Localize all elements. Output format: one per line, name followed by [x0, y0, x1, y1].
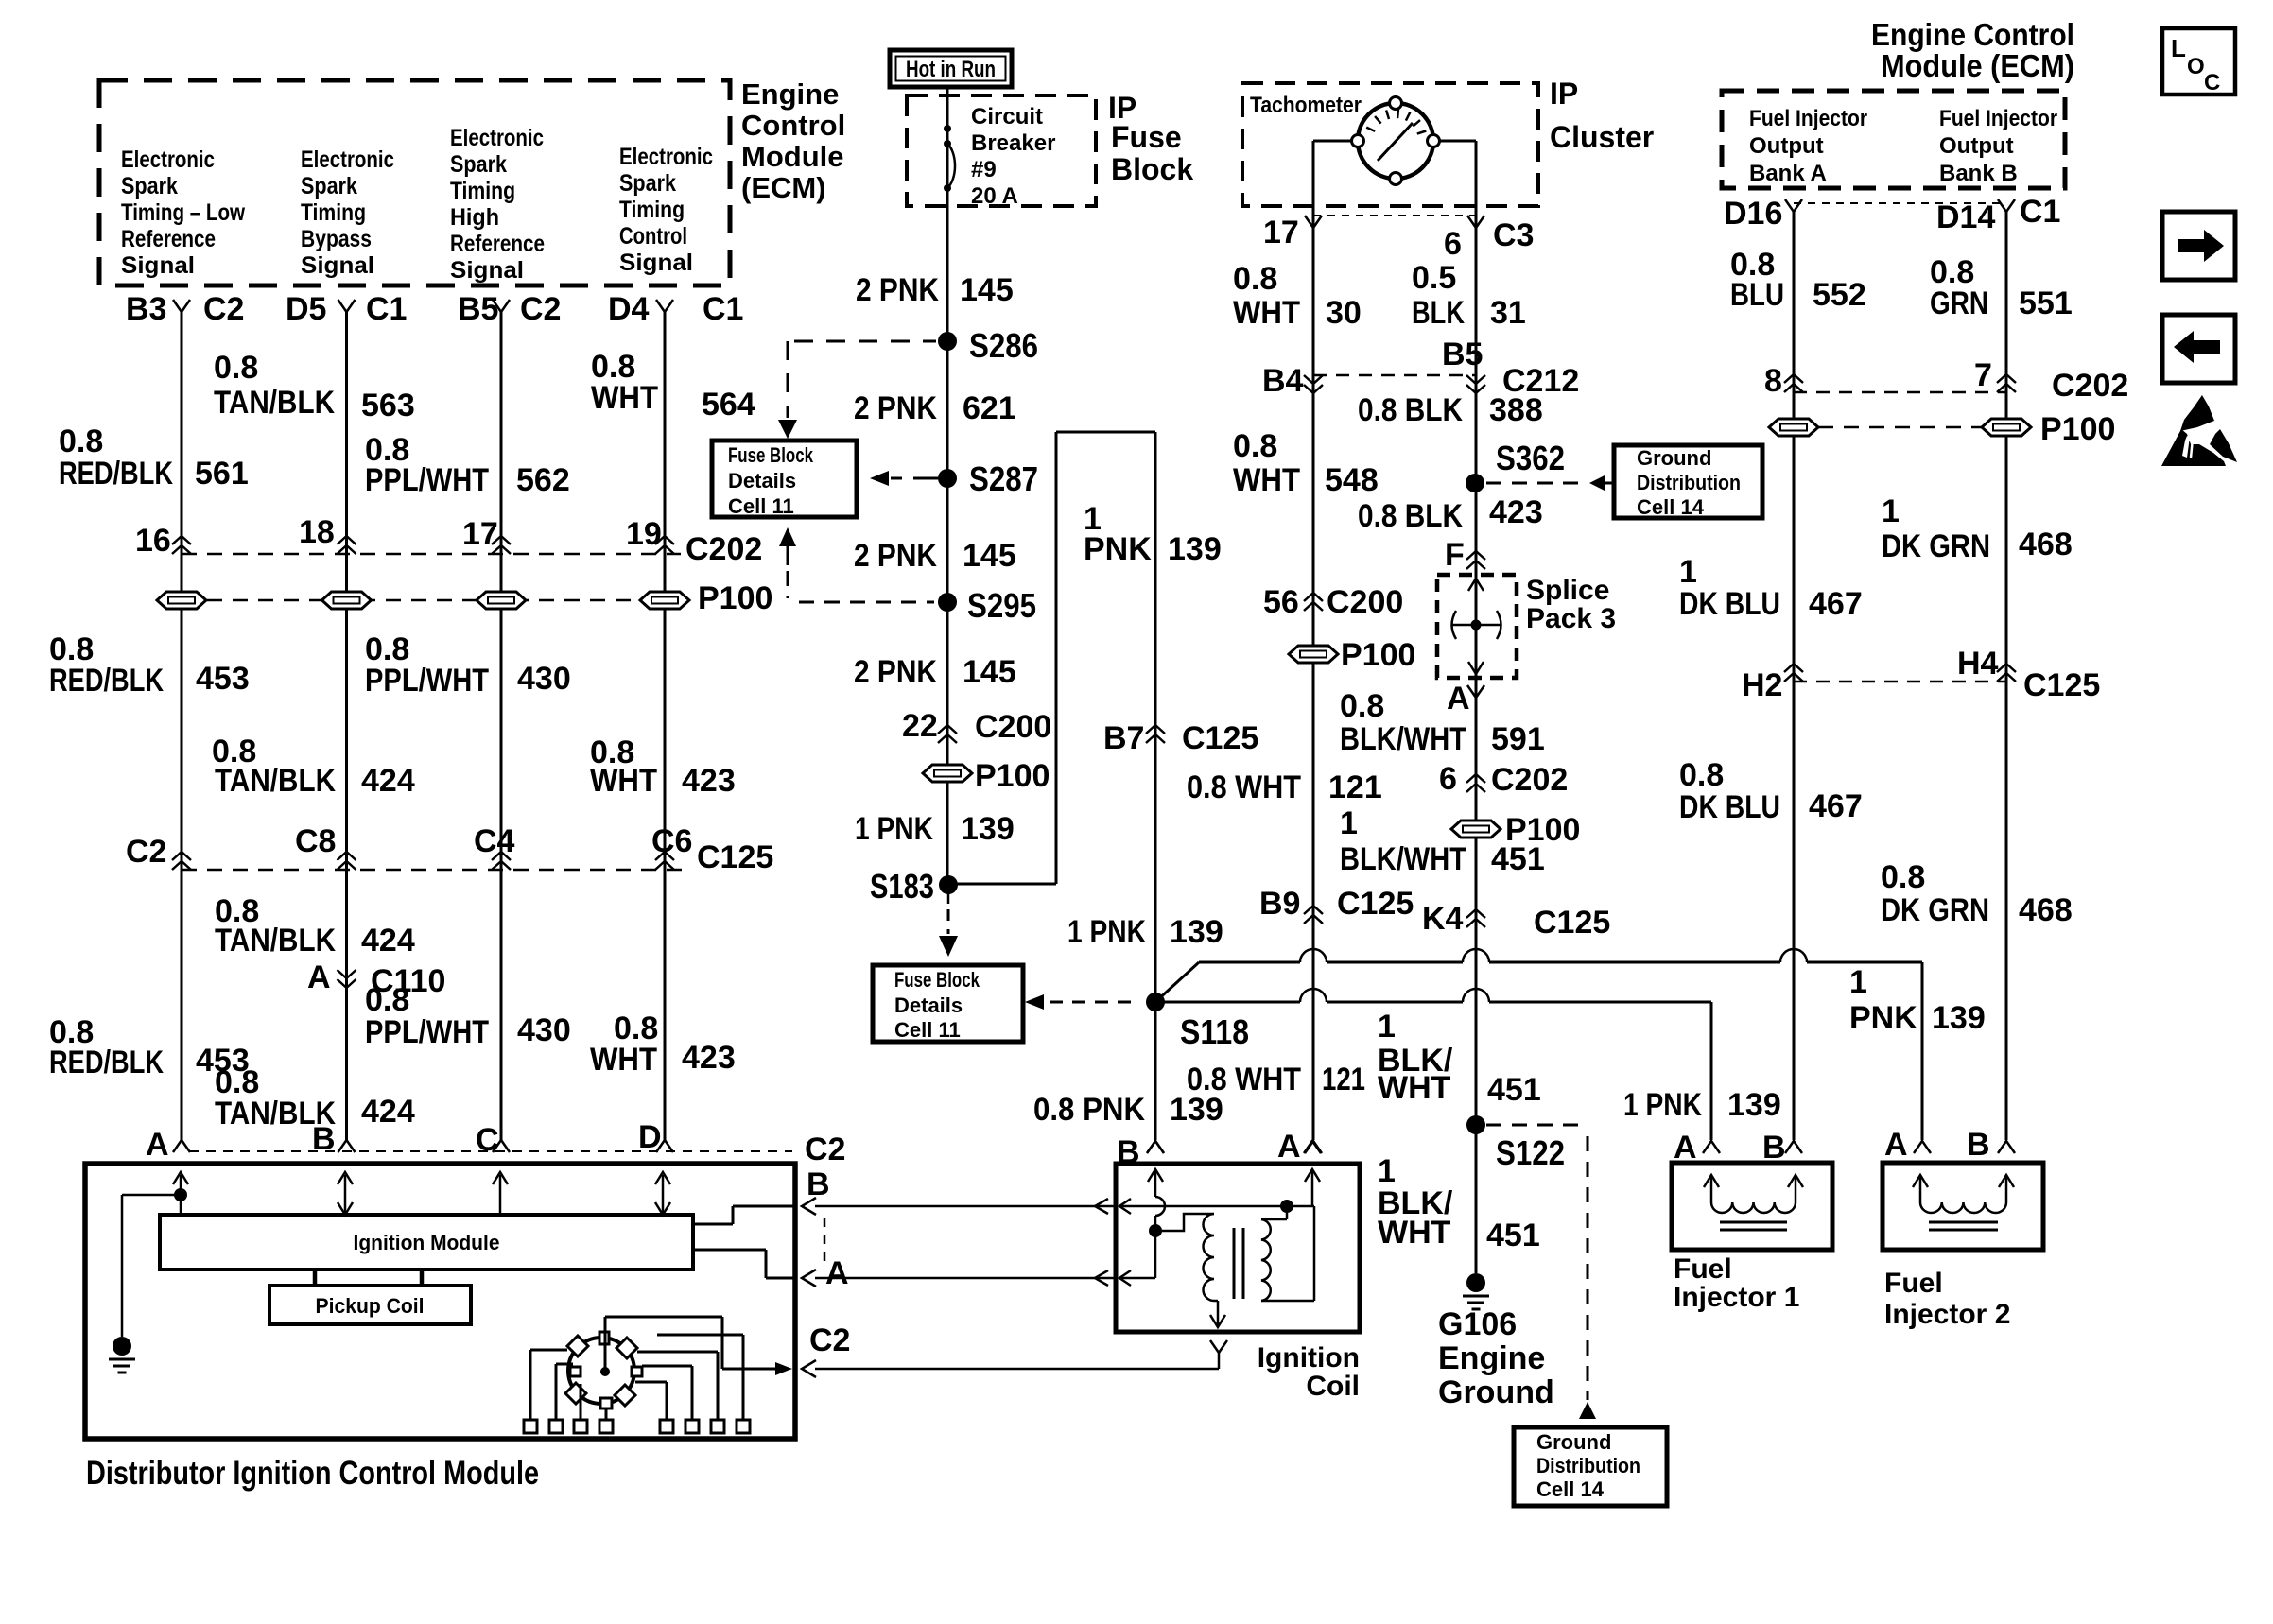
svg-text:430: 430: [517, 1012, 571, 1048]
svg-text:16: 16: [135, 523, 171, 559]
svg-text:B: B: [1117, 1134, 1140, 1170]
svg-text:1: 1: [1378, 1153, 1396, 1189]
svg-text:Fuse: Fuse: [1111, 120, 1182, 154]
svg-text:Bank B: Bank B: [1939, 161, 2018, 186]
svg-text:C125: C125: [1337, 886, 1414, 922]
svg-text:Ground: Ground: [1438, 1374, 1554, 1410]
svg-text:Control: Control: [741, 109, 845, 142]
svg-text:145: 145: [963, 654, 1016, 690]
svg-text:1: 1: [1882, 493, 1900, 529]
svg-text:B: B: [312, 1121, 336, 1157]
svg-text:0.8: 0.8: [214, 350, 258, 386]
svg-text:D4: D4: [608, 291, 650, 327]
svg-text:WHT: WHT: [1378, 1215, 1451, 1251]
svg-text:552: 552: [1813, 277, 1866, 313]
svg-text:551: 551: [2019, 285, 2073, 321]
svg-text:121: 121: [1328, 769, 1382, 805]
svg-text:DK GRN: DK GRN: [1881, 892, 1989, 928]
svg-text:139: 139: [1727, 1087, 1781, 1123]
svg-text:DK BLU: DK BLU: [1679, 789, 1780, 825]
svg-text:424: 424: [361, 763, 415, 799]
svg-text:C200: C200: [1327, 584, 1403, 620]
svg-text:6: 6: [1444, 226, 1462, 262]
svg-text:Coil: Coil: [1306, 1371, 1360, 1402]
svg-text:1: 1: [1849, 964, 1867, 1000]
svg-text:C125: C125: [1534, 905, 1610, 941]
svg-text:145: 145: [963, 538, 1016, 574]
svg-text:C: C: [2204, 70, 2220, 95]
svg-text:S183: S183: [870, 867, 934, 906]
svg-text:G106: G106: [1438, 1306, 1517, 1342]
svg-text:WHT: WHT: [1378, 1070, 1451, 1106]
svg-text:1: 1: [1378, 1009, 1396, 1045]
svg-text:Cell 14: Cell 14: [1536, 1477, 1605, 1501]
svg-text:0.8 WHT: 0.8 WHT: [1187, 769, 1301, 805]
svg-text:1: 1: [1340, 805, 1358, 841]
svg-text:Cell 14: Cell 14: [1637, 495, 1705, 519]
svg-text:453: 453: [196, 661, 250, 697]
svg-text:B3: B3: [126, 291, 166, 327]
svg-text:Electronic: Electronic: [619, 144, 713, 170]
svg-text:WHT: WHT: [590, 1042, 657, 1078]
svg-text:D14: D14: [1936, 199, 1995, 235]
svg-text:Spark: Spark: [301, 173, 357, 199]
svg-text:BLK/WHT: BLK/WHT: [1340, 721, 1466, 757]
svg-text:BLU: BLU: [1730, 277, 1784, 313]
svg-text:TAN/BLK: TAN/BLK: [215, 923, 336, 959]
svg-text:0.8 BLK: 0.8 BLK: [1358, 392, 1463, 428]
svg-text:139: 139: [961, 811, 1015, 847]
svg-text:19: 19: [626, 516, 662, 552]
svg-text:0.8: 0.8: [1679, 757, 1724, 793]
svg-text:Details: Details: [728, 469, 796, 492]
svg-text:DK GRN: DK GRN: [1882, 528, 1990, 564]
svg-text:B5: B5: [458, 291, 498, 327]
svg-text:Injector 2: Injector 2: [1884, 1299, 2010, 1330]
svg-text:BLK/WHT: BLK/WHT: [1340, 841, 1466, 877]
svg-text:423: 423: [1489, 494, 1543, 530]
svg-text:P100: P100: [698, 580, 772, 616]
svg-text:Ignition Module: Ignition Module: [354, 1231, 500, 1254]
svg-text:Tachometer: Tachometer: [1250, 93, 1362, 118]
svg-text:Breaker: Breaker: [971, 130, 1055, 156]
svg-text:Timing: Timing: [619, 197, 685, 223]
svg-text:Signal: Signal: [619, 250, 693, 276]
svg-text:Engine Control: Engine Control: [1871, 17, 2074, 52]
svg-text:56: 56: [1263, 584, 1299, 620]
svg-text:S118: S118: [1180, 1012, 1249, 1051]
svg-text:31: 31: [1490, 295, 1526, 331]
svg-text:Ground: Ground: [1637, 446, 1711, 470]
svg-text:30: 30: [1326, 295, 1362, 331]
svg-text:Fuel: Fuel: [1674, 1253, 1732, 1285]
svg-text:388: 388: [1489, 392, 1543, 428]
svg-text:PPL/WHT: PPL/WHT: [365, 1014, 489, 1050]
svg-text:Module (ECM): Module (ECM): [1881, 48, 2074, 83]
svg-text:C202: C202: [2052, 368, 2128, 404]
svg-text:DK BLU: DK BLU: [1679, 586, 1780, 622]
svg-text:#9: #9: [971, 157, 997, 182]
svg-text:Block: Block: [1111, 152, 1193, 186]
svg-text:C2: C2: [126, 834, 166, 870]
svg-text:Fuel Injector: Fuel Injector: [1749, 106, 1867, 131]
svg-text:O: O: [2187, 54, 2205, 79]
svg-text:467: 467: [1809, 788, 1863, 824]
svg-text:563: 563: [361, 388, 415, 423]
svg-text:C200: C200: [975, 709, 1051, 745]
svg-text:Reference: Reference: [121, 226, 216, 252]
svg-text:PNK: PNK: [1084, 531, 1152, 567]
svg-text:WHT: WHT: [591, 380, 658, 416]
svg-text:Ignition: Ignition: [1258, 1342, 1360, 1373]
svg-text:C4: C4: [474, 823, 515, 859]
svg-text:Signal: Signal: [450, 257, 524, 284]
svg-text:145: 145: [960, 272, 1014, 308]
svg-text:7: 7: [1974, 357, 1992, 393]
svg-text:451: 451: [1491, 841, 1545, 877]
svg-text:Fuel: Fuel: [1884, 1268, 1943, 1299]
svg-text:C1: C1: [2020, 194, 2060, 230]
svg-text:Timing – Low: Timing – Low: [121, 199, 245, 226]
svg-text:1 PNK: 1 PNK: [855, 811, 933, 847]
svg-text:C: C: [476, 1122, 499, 1158]
svg-text:Timing: Timing: [301, 199, 366, 226]
svg-text:468: 468: [2019, 527, 2073, 562]
svg-text:Bank A: Bank A: [1749, 161, 1827, 186]
svg-text:C125: C125: [2023, 667, 2100, 703]
svg-text:Fuse Block: Fuse Block: [894, 968, 980, 992]
svg-text:A: A: [825, 1255, 849, 1291]
svg-text:2 PNK: 2 PNK: [854, 538, 937, 574]
svg-text:S287: S287: [969, 459, 1038, 498]
svg-text:0.8: 0.8: [59, 423, 103, 459]
svg-text:Electronic: Electronic: [450, 125, 544, 151]
svg-text:2 PNK: 2 PNK: [856, 272, 939, 308]
svg-text:20 A: 20 A: [971, 183, 1018, 209]
svg-text:B: B: [807, 1166, 830, 1202]
svg-text:A: A: [146, 1127, 169, 1163]
svg-text:C2: C2: [809, 1322, 850, 1358]
svg-text:RED/BLK: RED/BLK: [59, 456, 173, 492]
svg-text:B5: B5: [1442, 337, 1483, 372]
svg-text:H2: H2: [1742, 667, 1782, 703]
svg-text:A: A: [1884, 1127, 1908, 1163]
svg-text:8: 8: [1764, 363, 1782, 399]
svg-text:Cell 11: Cell 11: [894, 1018, 961, 1042]
svg-text:BLK: BLK: [1412, 295, 1465, 331]
svg-text:PPL/WHT: PPL/WHT: [365, 462, 489, 498]
svg-text:S122: S122: [1496, 1133, 1565, 1172]
svg-text:Electronic: Electronic: [301, 147, 394, 173]
svg-text:Timing: Timing: [450, 178, 515, 204]
svg-text:K4: K4: [1422, 901, 1464, 937]
svg-text:451: 451: [1487, 1072, 1541, 1108]
svg-text:WHT: WHT: [590, 763, 657, 799]
svg-text:P100: P100: [1341, 637, 1415, 673]
svg-text:22: 22: [902, 708, 938, 744]
svg-text:0.8: 0.8: [365, 982, 409, 1018]
svg-text:IP: IP: [1550, 77, 1578, 111]
svg-text:B: B: [1762, 1130, 1786, 1166]
svg-text:WHT: WHT: [1233, 295, 1300, 331]
svg-text:C1: C1: [366, 291, 407, 327]
svg-text:B4: B4: [1262, 363, 1304, 399]
svg-text:1: 1: [1679, 554, 1697, 590]
svg-text:1 PNK: 1 PNK: [1623, 1087, 1702, 1123]
svg-text:Distributor Ignition Control M: Distributor Ignition Control Module: [86, 1455, 539, 1492]
svg-text:467: 467: [1809, 586, 1863, 622]
svg-text:0.8 WHT: 0.8 WHT: [1187, 1062, 1301, 1097]
svg-text:C2: C2: [203, 291, 244, 327]
svg-text:Pack 3: Pack 3: [1526, 603, 1616, 634]
svg-text:Pickup Coil: Pickup Coil: [316, 1294, 425, 1318]
svg-text:Ground: Ground: [1536, 1430, 1611, 1454]
svg-text:139: 139: [1168, 531, 1222, 567]
svg-text:423: 423: [682, 1040, 736, 1076]
svg-text:139: 139: [1170, 914, 1223, 950]
svg-text:C202: C202: [1491, 762, 1568, 798]
svg-text:424: 424: [361, 1094, 415, 1130]
svg-text:139: 139: [1932, 1000, 1986, 1036]
svg-text:0.8: 0.8: [1340, 688, 1384, 724]
svg-text:P100: P100: [2040, 411, 2115, 447]
svg-text:H4: H4: [1957, 646, 1999, 682]
svg-text:2 PNK: 2 PNK: [854, 654, 937, 690]
svg-text:Circuit: Circuit: [971, 104, 1043, 130]
svg-text:0.5: 0.5: [1412, 260, 1456, 296]
svg-text:C8: C8: [295, 823, 336, 859]
svg-text:451: 451: [1486, 1218, 1540, 1253]
svg-text:17: 17: [1263, 215, 1299, 251]
svg-text:TAN/BLK: TAN/BLK: [214, 385, 335, 421]
svg-text:Control: Control: [619, 223, 687, 250]
svg-text:WHT: WHT: [1233, 462, 1300, 498]
svg-text:A: A: [1447, 681, 1470, 717]
svg-text:C125: C125: [1182, 720, 1258, 756]
svg-text:C6: C6: [651, 823, 692, 859]
svg-text:423: 423: [682, 763, 736, 799]
svg-text:562: 562: [516, 462, 570, 498]
svg-text:0.8: 0.8: [1881, 859, 1925, 895]
svg-text:D: D: [638, 1119, 662, 1155]
svg-text:Distribution: Distribution: [1637, 471, 1741, 494]
svg-text:621: 621: [963, 390, 1016, 426]
svg-text:Output: Output: [1939, 133, 2014, 159]
svg-text:Module: Module: [741, 140, 844, 173]
svg-text:S295: S295: [967, 586, 1036, 625]
svg-text:A: A: [1277, 1129, 1301, 1165]
svg-text:S286: S286: [969, 326, 1038, 365]
svg-text:0.8: 0.8: [1233, 428, 1277, 464]
svg-text:548: 548: [1325, 462, 1379, 498]
svg-text:121: 121: [1322, 1062, 1365, 1097]
svg-text:0.8 BLK: 0.8 BLK: [1358, 498, 1463, 534]
svg-text:18: 18: [299, 514, 335, 550]
svg-text:Signal: Signal: [301, 252, 374, 279]
svg-text:B: B: [1967, 1127, 1990, 1163]
svg-text:PNK: PNK: [1849, 1000, 1917, 1036]
svg-text:Spark: Spark: [121, 173, 178, 199]
svg-text:Fuse Block: Fuse Block: [728, 443, 814, 467]
svg-text:Injector 1: Injector 1: [1674, 1282, 1799, 1313]
svg-text:D16: D16: [1724, 196, 1782, 232]
svg-text:Engine: Engine: [1438, 1340, 1545, 1376]
svg-text:P100: P100: [975, 758, 1050, 794]
svg-text:Reference: Reference: [450, 231, 545, 257]
svg-text:PPL/WHT: PPL/WHT: [365, 663, 489, 699]
svg-text:Spark: Spark: [619, 170, 676, 197]
svg-text:A: A: [307, 959, 331, 995]
svg-text:Spark: Spark: [450, 151, 507, 178]
svg-text:GRN: GRN: [1930, 285, 1988, 321]
svg-text:561: 561: [195, 456, 249, 492]
svg-text:C3: C3: [1493, 217, 1534, 253]
svg-text:High: High: [450, 204, 499, 231]
svg-text:RED/BLK: RED/BLK: [49, 663, 164, 699]
svg-text:Details: Details: [894, 993, 963, 1017]
svg-text:Cell 11: Cell 11: [728, 494, 794, 518]
svg-text:B7: B7: [1103, 720, 1144, 756]
svg-text:Output: Output: [1749, 133, 1824, 159]
svg-text:Fuel Injector: Fuel Injector: [1939, 106, 2057, 131]
svg-text:0.8: 0.8: [1233, 261, 1277, 297]
svg-text:C202: C202: [685, 531, 762, 567]
svg-text:591: 591: [1491, 721, 1545, 757]
svg-text:Bypass: Bypass: [301, 226, 372, 252]
svg-text:C2: C2: [520, 291, 561, 327]
svg-text:F: F: [1445, 537, 1465, 573]
svg-text:S362: S362: [1496, 439, 1565, 477]
svg-text:0.8 PNK: 0.8 PNK: [1033, 1092, 1145, 1128]
svg-text:Signal: Signal: [121, 252, 195, 279]
svg-text:Hot in Run: Hot in Run: [906, 57, 996, 82]
svg-text:1 PNK: 1 PNK: [1067, 914, 1146, 950]
svg-text:C2: C2: [805, 1132, 845, 1167]
svg-text:468: 468: [2019, 892, 2073, 928]
svg-text:424: 424: [361, 923, 415, 959]
svg-text:Cluster: Cluster: [1550, 120, 1654, 154]
svg-text:L: L: [2171, 34, 2186, 62]
svg-text:Engine: Engine: [741, 78, 839, 111]
svg-text:2 PNK: 2 PNK: [854, 390, 937, 426]
svg-text:(ECM): (ECM): [741, 171, 826, 204]
svg-text:Splice: Splice: [1526, 575, 1609, 606]
svg-text:RED/BLK: RED/BLK: [49, 1045, 164, 1080]
svg-text:564: 564: [702, 387, 755, 423]
svg-text:C125: C125: [697, 839, 773, 875]
svg-text:TAN/BLK: TAN/BLK: [215, 763, 336, 799]
svg-text:Electronic: Electronic: [121, 147, 215, 173]
svg-text:D5: D5: [286, 291, 326, 327]
svg-text:A: A: [1674, 1130, 1697, 1166]
svg-text:B9: B9: [1259, 886, 1300, 922]
svg-text:430: 430: [517, 661, 571, 697]
svg-text:6: 6: [1439, 761, 1457, 797]
svg-text:C1: C1: [703, 291, 743, 327]
svg-text:Distribution: Distribution: [1536, 1454, 1640, 1477]
svg-text:17: 17: [462, 516, 498, 552]
